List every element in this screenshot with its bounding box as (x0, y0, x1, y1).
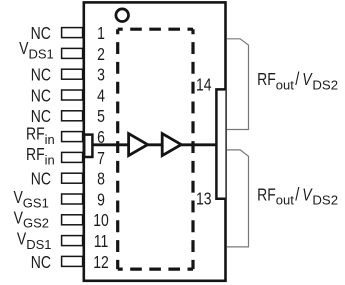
svg-text:3: 3 (97, 66, 105, 85)
svg-text:V: V (14, 209, 24, 228)
svg-text:V: V (19, 40, 29, 59)
svg-text:V: V (17, 230, 27, 249)
svg-text:9: 9 (97, 191, 105, 210)
svg-text:/: / (295, 184, 299, 205)
svg-text:12: 12 (93, 253, 109, 272)
svg-text:5: 5 (97, 108, 105, 127)
svg-text:RF: RF (26, 146, 45, 165)
svg-text:/: / (295, 68, 299, 89)
svg-text:NC: NC (31, 25, 51, 44)
svg-text:10: 10 (93, 212, 109, 231)
svg-text:2: 2 (97, 45, 105, 64)
svg-text:7: 7 (97, 149, 105, 168)
svg-text:8: 8 (97, 170, 105, 189)
svg-text:V: V (302, 71, 313, 90)
svg-text:RF: RF (257, 71, 276, 90)
svg-text:NC: NC (31, 253, 51, 272)
svg-text:NC: NC (31, 87, 51, 106)
svg-text:V: V (302, 186, 313, 205)
svg-text:DS1: DS1 (26, 237, 51, 252)
svg-text:NC: NC (31, 170, 51, 189)
svg-text:DS1: DS1 (29, 47, 54, 62)
svg-text:14: 14 (196, 76, 212, 95)
svg-text:13: 13 (196, 190, 212, 209)
svg-text:4: 4 (97, 87, 105, 106)
svg-text:GS1: GS1 (23, 195, 49, 210)
svg-text:V: V (13, 189, 23, 208)
svg-text:RF: RF (257, 186, 276, 205)
svg-text:RF: RF (26, 125, 45, 144)
svg-text:NC: NC (31, 66, 51, 85)
svg-text:NC: NC (31, 108, 51, 127)
svg-text:DS2: DS2 (312, 77, 338, 92)
svg-text:11: 11 (94, 233, 109, 252)
svg-text:6: 6 (97, 129, 105, 148)
svg-text:out: out (276, 193, 294, 208)
svg-text:in: in (45, 132, 55, 147)
svg-text:1: 1 (97, 25, 105, 44)
svg-text:GS2: GS2 (23, 216, 49, 231)
svg-text:in: in (45, 153, 55, 168)
svg-text:out: out (276, 77, 294, 92)
svg-text:DS2: DS2 (312, 193, 338, 208)
